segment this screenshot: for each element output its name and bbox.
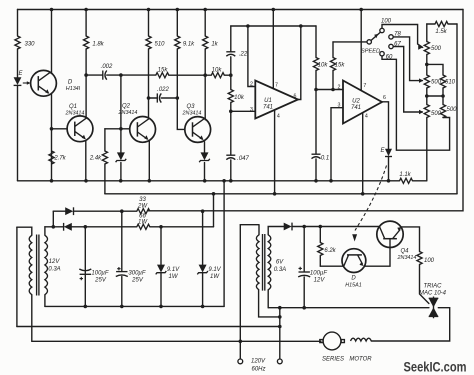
wire Q2 emitter down xyxy=(148,141,150,181)
wire pot1 to junction xyxy=(426,55,428,65)
svg-text:1W: 1W xyxy=(138,220,148,226)
diode rectifier D1 xyxy=(65,207,73,215)
transformer 6V windings xyxy=(256,234,270,291)
node junction (304.2,307.7) xyxy=(302,306,306,310)
svg-text:741: 741 xyxy=(263,105,273,111)
node junction (85.3,306.4) xyxy=(84,305,88,309)
svg-text:6: 6 xyxy=(294,94,297,100)
terminal 120V right xyxy=(277,359,282,364)
wire junction to 510 top xyxy=(427,64,443,75)
wire 15k fb bottom xyxy=(332,71,334,90)
svg-text:25V: 25V xyxy=(131,278,144,284)
wire pot chain bottom to 1.1k xyxy=(426,118,428,181)
resistor 2.4k xyxy=(102,151,107,164)
node junction (316,180.8) xyxy=(314,179,318,183)
svg-text:.22: .22 xyxy=(239,52,248,58)
wire 10k bottom xyxy=(315,71,317,90)
svg-text:H134I: H134I xyxy=(66,86,81,92)
switch pivot xyxy=(367,40,371,44)
wire 6V primary top lead xyxy=(240,225,259,235)
wire zener1 column xyxy=(120,129,122,153)
node junction (121.8,306.4) xyxy=(120,305,124,309)
wire 100uF top column xyxy=(84,227,86,273)
capacitor 100uF 25V xyxy=(79,269,91,274)
node junction (86,180.8) xyxy=(84,179,88,183)
resistor 100 xyxy=(417,252,422,265)
svg-text:60: 60 xyxy=(386,55,393,61)
svg-text:67: 67 xyxy=(394,42,401,48)
node junction (86.1,9.5) xyxy=(84,8,88,12)
svg-text:2.4k: 2.4k xyxy=(89,156,102,162)
node junction (273.3,9.5) xyxy=(272,8,276,12)
wire D emitter down xyxy=(51,94,53,181)
node junction (230.8,111.3) xyxy=(229,110,233,114)
potentiometer 500 third xyxy=(424,105,429,118)
node junction (279.8,316.9) xyxy=(278,315,282,319)
svg-text:TRIAC: TRIAC xyxy=(424,284,443,290)
wire left column bottom xyxy=(17,86,19,181)
node junction (247.9,26) xyxy=(246,24,250,28)
switch contact 78 xyxy=(389,35,393,39)
node junction (120.9,75.1) xyxy=(119,73,123,77)
wire 12V secondary bottom rail xyxy=(45,305,224,307)
node junction (362.7,193.8) xyxy=(361,192,365,196)
svg-text:33: 33 xyxy=(139,197,146,203)
node junction (53.3,226.8) xyxy=(52,225,56,229)
node junction (361.2,9.5) xyxy=(359,8,363,12)
node junction (202.6,211.2) xyxy=(201,209,205,213)
resistor 9.1k xyxy=(175,36,180,49)
wire 66 bus xyxy=(45,226,214,228)
wire left outer column xyxy=(16,227,18,326)
wire 100 resistor to triac gate xyxy=(420,265,429,304)
resistor 1.8k xyxy=(84,36,89,49)
wire zener2 to rail xyxy=(204,163,206,181)
wire 120V left terminal column xyxy=(239,225,241,359)
wire pot3 top xyxy=(426,96,428,105)
wire supply riser right xyxy=(148,10,463,211)
svg-text:1k: 1k xyxy=(211,42,218,48)
svg-text:2: 2 xyxy=(338,85,341,91)
wire motor rail y341 xyxy=(32,340,321,342)
svg-text:3: 3 xyxy=(250,107,253,113)
svg-text:12V: 12V xyxy=(49,259,61,265)
transistor Q3 2N3414 xyxy=(185,117,211,143)
svg-text:4: 4 xyxy=(365,114,368,120)
wire bottom rail A xyxy=(18,180,400,182)
transformer 12V windings xyxy=(29,235,47,296)
wire 9.1k column top xyxy=(176,10,178,37)
resistor 66 1W xyxy=(137,224,150,229)
svg-text:.002: .002 xyxy=(101,64,113,70)
node junction (426.8,64.4) xyxy=(425,63,429,67)
capacitor .022 xyxy=(157,93,161,102)
svg-text:MAC 10-4: MAC 10-4 xyxy=(419,291,447,297)
svg-text:6.2k: 6.2k xyxy=(324,248,336,254)
wire switch arm xyxy=(371,32,380,40)
svg-text:H15A1: H15A1 xyxy=(345,283,361,289)
node junction (388.5,180.8) xyxy=(387,179,391,183)
node junction (426.8,96) xyxy=(425,94,429,98)
svg-text:9.1k: 9.1k xyxy=(183,42,195,48)
transistor Q2 2N3414 xyxy=(130,116,156,142)
svg-text:2N3414: 2N3414 xyxy=(65,111,85,117)
svg-text:1.5k: 1.5k xyxy=(435,29,447,35)
capacitor 300uF 25V xyxy=(116,272,128,277)
wire pin3 node to .047 xyxy=(230,111,232,155)
wire .047 to rail xyxy=(230,160,232,181)
svg-text:.047: .047 xyxy=(237,156,249,162)
dashed light path with arrow xyxy=(355,166,387,231)
resistor 330 xyxy=(15,36,20,49)
wire switch 78 contact lead xyxy=(393,37,422,81)
wire diode E to rail xyxy=(388,157,390,181)
wire rail A to rail B corner xyxy=(104,181,106,194)
wire 1.5k right end column xyxy=(456,24,458,194)
op-amp U2 741 xyxy=(343,81,382,124)
resistor 510 xyxy=(146,36,151,49)
triac MAC 10-4 xyxy=(429,298,439,307)
node junction (161,226.8) xyxy=(159,225,163,229)
wire 1.8k bottom to Q1 collector xyxy=(85,49,87,118)
wire rectifier junction column xyxy=(52,211,54,227)
wire 10kv to pin3 node xyxy=(230,103,232,112)
wire zener1 to rail xyxy=(120,163,122,181)
transistor D H134I xyxy=(31,70,57,96)
node junction (443,96) xyxy=(441,94,445,98)
LED E emitter diode xyxy=(14,77,22,85)
wire U2 pin4 drop xyxy=(362,113,364,194)
wire 100uF12 column xyxy=(303,227,305,308)
node junction (304.2,226.5) xyxy=(302,225,306,229)
switch contact 67 xyxy=(389,44,393,48)
transistor Q1 2N3414 xyxy=(67,116,93,142)
label U1 pins xyxy=(250,82,297,120)
wire U1 feedback bus y26 xyxy=(231,25,316,27)
svg-text:300µF: 300µF xyxy=(128,271,145,277)
wire 10k right to .22 junction xyxy=(224,74,231,76)
potentiometer 500 top xyxy=(424,42,429,55)
wire 15k fb column xyxy=(332,42,334,58)
svg-text:D: D xyxy=(68,80,73,86)
wire 6.2k column xyxy=(319,227,321,267)
resistor 10k horizontal xyxy=(211,73,224,78)
svg-text:10k: 10k xyxy=(212,68,223,74)
zener 9.1V 1W left xyxy=(156,265,167,275)
wire 510 bottom to Q2 collector xyxy=(148,49,150,118)
wire rail A right of 1.1k xyxy=(413,180,427,182)
series motor xyxy=(320,332,372,350)
op-amp U1 741 xyxy=(255,81,298,119)
node junction (204.7,180.8) xyxy=(203,179,207,183)
capacitor .22 xyxy=(226,52,235,56)
transistor Q4 2N3414 xyxy=(377,221,403,248)
wire 12V primary top lead xyxy=(17,227,32,235)
wire 6V secondary top lead xyxy=(268,227,284,235)
wire U2 pin3 xyxy=(331,108,343,181)
svg-text:741: 741 xyxy=(351,105,361,111)
wire 6.2k to H15A1 xyxy=(320,265,343,267)
svg-text:330: 330 xyxy=(24,42,35,48)
wire 300uF bottom xyxy=(121,276,123,306)
wire U1 pin2 drop xyxy=(248,26,255,87)
wire 100uF bottom xyxy=(84,274,86,306)
svg-text:Q4: Q4 xyxy=(400,249,409,255)
svg-text:100: 100 xyxy=(424,258,435,264)
svg-text:U2: U2 xyxy=(352,99,360,105)
label U2 pins xyxy=(338,83,387,120)
wire 2.4k column xyxy=(104,129,106,151)
wire 1.8k column top xyxy=(85,10,87,37)
svg-text:7: 7 xyxy=(363,83,366,89)
node junction (177.3,98) xyxy=(176,96,180,100)
switch contact 60 xyxy=(380,52,384,56)
wire ground tie column xyxy=(223,181,225,307)
svg-text:12V: 12V xyxy=(314,278,326,284)
svg-text:2N3414: 2N3414 xyxy=(182,111,202,117)
svg-text:2.7k: 2.7k xyxy=(53,156,66,162)
node junction (51.5,128.8) xyxy=(50,127,54,131)
phototransistor D H15A1 xyxy=(342,249,366,273)
svg-text:.022: .022 xyxy=(157,87,169,93)
resistor 15k xyxy=(156,73,169,78)
node junction (230.8,180.8) xyxy=(229,179,233,183)
svg-text:15k: 15k xyxy=(158,68,169,74)
capacitor .002 xyxy=(103,71,107,80)
wire U2 pin7 drop xyxy=(360,10,362,91)
svg-text:0.1: 0.1 xyxy=(321,156,329,162)
svg-text:Q2: Q2 xyxy=(122,104,131,110)
svg-text:2N3414: 2N3414 xyxy=(118,110,138,116)
svg-text:500: 500 xyxy=(431,46,442,52)
wire 12V secondary top stub xyxy=(44,227,46,236)
wire rail B xyxy=(105,193,457,195)
node junction (202.6,306.4) xyxy=(201,305,205,309)
node junction (274.6,193.8) xyxy=(273,192,277,196)
node junction (86.1,75.1) xyxy=(84,73,88,77)
wire 510 bottom xyxy=(442,88,444,96)
svg-text:120V: 120V xyxy=(251,359,266,365)
wire 12V primary bottom lead xyxy=(31,295,33,342)
wire switch 100 contact lead xyxy=(382,25,423,48)
wire 0.1 column xyxy=(315,90,317,154)
wire Q3 emitter to zener xyxy=(204,142,206,153)
svg-text:2: 2 xyxy=(250,82,253,88)
node junction (240.3,341.3) xyxy=(239,340,243,344)
resistor 500 fourth xyxy=(440,105,445,118)
svg-text:U1: U1 xyxy=(264,98,272,104)
node junction (148.5,9.5) xyxy=(147,8,151,12)
svg-text:2N3414: 2N3414 xyxy=(397,255,417,261)
resistor 6.2k xyxy=(318,243,323,256)
wire U2 out to diode E xyxy=(382,102,389,149)
svg-text:D: D xyxy=(351,276,356,282)
wire 1k down to Q3 collector xyxy=(204,49,206,120)
wire neutral rail y326 xyxy=(17,326,280,328)
svg-text:1W: 1W xyxy=(210,274,220,280)
diode rectifier D2 xyxy=(64,223,72,231)
wire Q2 base xyxy=(105,128,130,130)
node junction (149.3,180.8) xyxy=(148,179,152,183)
svg-text:2W: 2W xyxy=(137,204,148,210)
wire pot2 top xyxy=(426,64,428,75)
wire zener 9.1 left column xyxy=(160,227,162,307)
svg-text:3: 3 xyxy=(338,103,341,109)
svg-text:7: 7 xyxy=(275,83,278,89)
diode E opto emitter xyxy=(385,149,392,156)
resistor 2.7k xyxy=(49,151,54,164)
resistor 15k U2 feedback xyxy=(330,58,335,71)
wire triac to motor xyxy=(371,308,449,341)
node junction (279.8,307.7) xyxy=(278,306,282,310)
wire U2 pin2 xyxy=(316,89,343,91)
svg-text:9.1V: 9.1V xyxy=(167,267,180,273)
wire 9.1k down to Q3 base xyxy=(177,49,185,129)
resistor 1.5k xyxy=(435,21,448,26)
svg-text:SeekIC.com: SeekIC.com xyxy=(404,359,467,374)
wire phase-shift bus y75 xyxy=(121,74,156,76)
capacitor .047 xyxy=(226,155,235,159)
svg-text:MOTOR: MOTOR xyxy=(349,357,372,363)
node junction (213.5,193.8) xyxy=(212,192,216,196)
node junction (205.2,9.5) xyxy=(203,8,207,12)
svg-text:SPEED: SPEED xyxy=(361,48,380,54)
potentiometer 500 second xyxy=(424,75,429,88)
switch contact 100 xyxy=(380,28,384,32)
svg-text:100µF: 100µF xyxy=(91,271,108,277)
wire Q1 base xyxy=(52,128,68,130)
resistor 10k U2 input xyxy=(313,58,318,71)
node junction (148.5,98) xyxy=(147,96,151,100)
svg-text:1W: 1W xyxy=(169,274,179,280)
svg-text:510: 510 xyxy=(154,42,165,48)
wire .002 left lead xyxy=(86,74,103,76)
node junction (316,89.5) xyxy=(314,88,318,92)
wire 500d top xyxy=(442,96,444,105)
wire pot1 top xyxy=(426,24,428,42)
wire U1 pin6 out xyxy=(298,26,301,100)
wire 1.5k leads xyxy=(427,23,457,25)
svg-text:9.1V: 9.1V xyxy=(208,267,221,273)
svg-text:1.8k: 1.8k xyxy=(92,42,104,48)
node junction (230.8,75.2) xyxy=(229,73,233,77)
wire switch 60 contact lead xyxy=(382,56,450,150)
svg-text:500: 500 xyxy=(431,80,442,86)
svg-text:500: 500 xyxy=(431,111,442,117)
node junction (279.8,326.5) xyxy=(278,325,282,329)
svg-text:60Hz: 60Hz xyxy=(251,367,265,373)
wire U1 pin3 xyxy=(231,110,256,112)
wire 300uF top column xyxy=(121,211,123,271)
node junction (120.9,128.8) xyxy=(119,127,123,131)
wire 12V secondary bottom stub xyxy=(44,295,46,307)
svg-text:SERIES: SERIES xyxy=(322,357,344,363)
svg-text:25V: 25V xyxy=(94,278,107,284)
wire 510 column top xyxy=(148,10,150,37)
node junction (51.5,9.5) xyxy=(50,8,54,12)
resistor 10k U1 pin3 xyxy=(228,90,233,103)
svg-text:78: 78 xyxy=(394,32,401,38)
wire 0.1 to rail xyxy=(315,159,317,181)
zener below Q3 emitter xyxy=(199,152,210,162)
svg-text:100: 100 xyxy=(381,19,392,25)
wire 10k to U2 pin2 column xyxy=(315,26,317,58)
node junction (121.8,211.2) xyxy=(120,209,124,213)
zener 9.1V 1W right xyxy=(197,265,208,275)
wire rail B drop to 66 bus xyxy=(213,194,215,227)
capacitor 0.1 xyxy=(312,154,321,158)
capacitor 100uF 12V xyxy=(298,272,310,277)
wire 2.4k to rail xyxy=(104,164,106,181)
wire 6V bottom rail to triac xyxy=(268,307,429,309)
wire .22 column top from fb bus xyxy=(230,26,232,52)
wire 15k to 10k span xyxy=(169,74,212,76)
wire 500d bottom hook xyxy=(442,117,444,119)
wire top supply rail xyxy=(18,9,464,11)
wire 120V right terminal column xyxy=(279,308,281,359)
node junction (205.2,75.2) xyxy=(203,73,207,77)
wire 1k column top xyxy=(204,10,206,37)
svg-text:Q3: Q3 xyxy=(186,104,195,110)
wire 6V secondary bottom lead xyxy=(267,290,269,308)
wire .22 to 10k vertical xyxy=(230,57,232,90)
node junction (177.3,9.5) xyxy=(176,8,180,12)
wire U1 pin4 drop xyxy=(274,110,276,194)
svg-text:Q1: Q1 xyxy=(69,104,77,110)
svg-text:15k: 15k xyxy=(335,63,346,69)
svg-text:500: 500 xyxy=(446,107,457,113)
wire junction bus y96 xyxy=(427,95,443,97)
wire U1 pin7 drop xyxy=(272,10,274,89)
wire Q4 emitter lead xyxy=(401,227,419,252)
svg-text:100µF: 100µF xyxy=(310,271,327,277)
wire 6V primary bottom lead xyxy=(259,290,280,317)
svg-text:0.3A: 0.3A xyxy=(274,267,286,273)
node junction (120.7,180.8) xyxy=(119,179,123,183)
wire rectified 6V bus xyxy=(292,226,380,228)
wire switch pivot feed xyxy=(333,41,367,43)
node junction (300.8,26) xyxy=(299,24,303,28)
wire Q1 emitter down xyxy=(85,141,87,181)
resistor 33 2W xyxy=(137,209,150,214)
wire cap to Q2 base junction xyxy=(120,75,122,129)
resistor 510 pot chain xyxy=(440,75,445,88)
resistor 1k xyxy=(203,36,208,49)
wire left column top xyxy=(17,10,19,37)
svg-text:6V: 6V xyxy=(276,260,284,266)
svg-text:4: 4 xyxy=(277,114,280,120)
wire .022 left lead xyxy=(149,97,158,99)
svg-text:10k: 10k xyxy=(318,63,329,69)
wire .022 right lead xyxy=(161,97,177,99)
node junction (320.3,226.5) xyxy=(319,225,323,229)
resistor 1.1k xyxy=(400,178,413,183)
svg-text:1.1k: 1.1k xyxy=(399,172,411,178)
diode 6V rectifier xyxy=(284,223,292,231)
svg-text:10k: 10k xyxy=(234,95,245,101)
node junction (333,89.5) xyxy=(331,88,335,92)
node junction (85.3,226.8) xyxy=(84,225,88,229)
svg-text:6: 6 xyxy=(383,95,386,101)
wire diode1 to 33 bus xyxy=(53,210,137,212)
wire left column mid xyxy=(17,49,19,77)
svg-text:510: 510 xyxy=(445,80,456,86)
node junction (51.5,180.8) xyxy=(50,179,54,183)
wire zener 9.1 right column xyxy=(202,211,204,306)
node junction (224.1,180.8) xyxy=(222,179,226,183)
node junction (161,306.4) xyxy=(159,305,163,309)
terminal 120V left xyxy=(238,359,243,364)
